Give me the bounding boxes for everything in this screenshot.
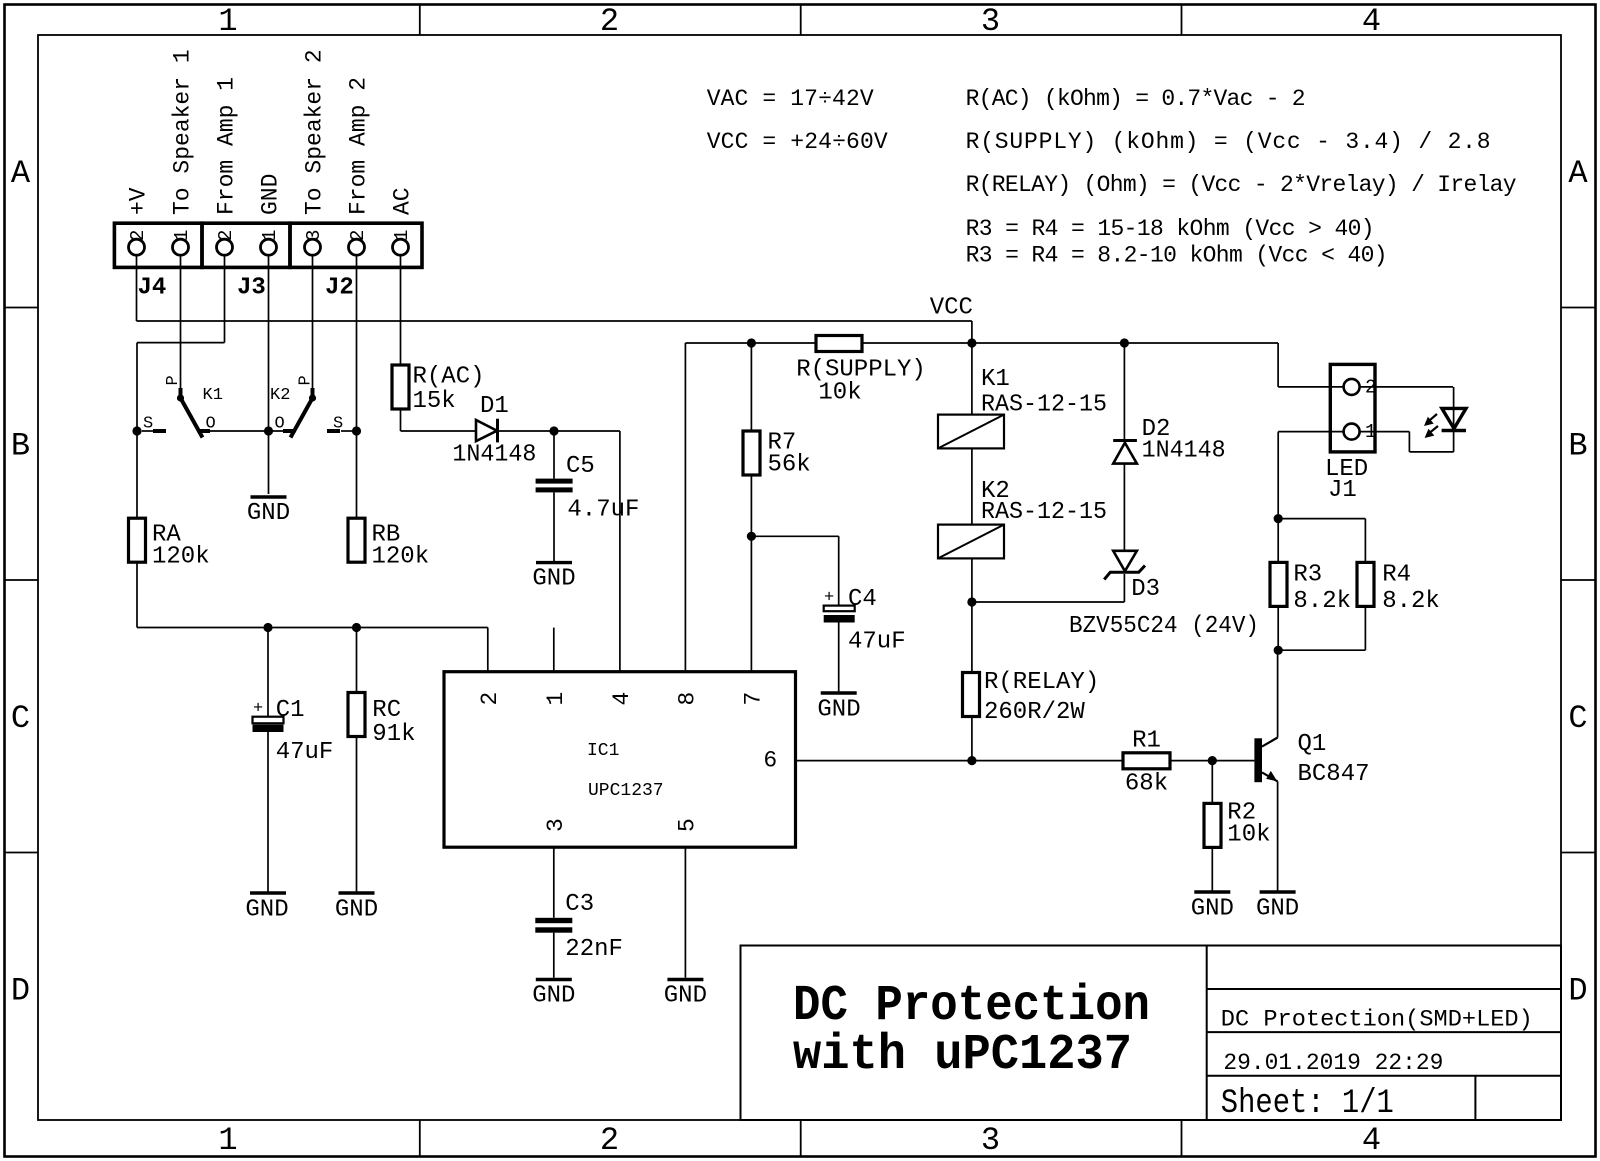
svg-text:47uF: 47uF xyxy=(276,739,334,766)
junction xyxy=(1120,338,1129,347)
ground (RC) xyxy=(335,893,378,924)
svg-text:GND: GND xyxy=(258,174,284,215)
wire xyxy=(1364,519,1366,563)
svg-text:6: 6 xyxy=(763,748,777,774)
svg-text:C1: C1 xyxy=(276,697,305,724)
svg-text:BC847: BC847 xyxy=(1298,761,1370,788)
svg-text:1: 1 xyxy=(391,230,413,241)
svg-text:P: P xyxy=(297,375,316,385)
svg-text:RAS-12-15: RAS-12-15 xyxy=(981,499,1107,526)
svg-text:+: + xyxy=(824,589,834,608)
svg-text:J2: J2 xyxy=(325,274,354,301)
junction xyxy=(264,426,273,435)
svg-text:To Speaker 2: To Speaker 2 xyxy=(302,49,328,215)
svg-text:B: B xyxy=(11,428,30,465)
wire xyxy=(267,628,269,717)
svg-text:R3 = R4 = 15-18 kOhm (Vcc > 40: R3 = R4 = 15-18 kOhm (Vcc > 40) xyxy=(966,216,1375,242)
svg-text:R(SUPPLY) (kOhm) = (Vcc - 3.4): R(SUPPLY) (kOhm) = (Vcc - 3.4) / 2.8 xyxy=(966,129,1491,155)
wire xyxy=(1409,451,1453,453)
frame tick right B/C xyxy=(1561,579,1596,581)
svg-text:GND: GND xyxy=(817,697,860,724)
svg-text:1: 1 xyxy=(171,230,193,241)
svg-text:15k: 15k xyxy=(413,388,456,415)
frame tick bottom 2/3 xyxy=(800,1120,802,1157)
capacitor C5 xyxy=(536,453,640,524)
svg-text:C4: C4 xyxy=(848,586,877,613)
wire xyxy=(971,321,973,343)
wire xyxy=(400,409,402,431)
wire xyxy=(137,627,488,629)
svg-text:R3: R3 xyxy=(1293,562,1322,589)
svg-text:2: 2 xyxy=(600,1122,619,1159)
svg-text:5: 5 xyxy=(674,818,700,832)
wire xyxy=(862,342,1278,344)
connector J2 xyxy=(290,223,422,301)
resistor RA xyxy=(129,518,210,570)
svg-text:47uF: 47uF xyxy=(848,629,906,656)
resistor RC xyxy=(348,693,416,749)
wire xyxy=(1277,432,1279,563)
svg-text:IC1: IC1 xyxy=(587,741,619,761)
svg-text:A: A xyxy=(1568,155,1588,192)
resistor R3 xyxy=(1270,562,1351,616)
capacitor C1 polarized xyxy=(253,697,334,766)
svg-text:K1: K1 xyxy=(981,366,1010,393)
svg-text:GND: GND xyxy=(245,897,288,924)
svg-text:260R/2W: 260R/2W xyxy=(984,699,1085,726)
junction xyxy=(549,426,558,435)
LED (external) xyxy=(1424,408,1466,438)
svg-text:56k: 56k xyxy=(768,452,811,479)
svg-text:R3 = R4 = 8.2-10 kOhm (Vcc < 4: R3 = R4 = 8.2-10 kOhm (Vcc < 40) xyxy=(966,243,1388,269)
capacitor C3 xyxy=(535,891,623,963)
wire xyxy=(498,430,620,432)
resistor R2 xyxy=(1204,800,1271,849)
wire xyxy=(224,255,226,342)
svg-text:Sheet: 1/1: Sheet: 1/1 xyxy=(1221,1085,1394,1123)
ground (C4) xyxy=(817,693,860,724)
wire xyxy=(356,736,358,891)
svg-text:10k: 10k xyxy=(1227,822,1270,849)
svg-text:C5: C5 xyxy=(566,453,595,480)
svg-text:R(RELAY): R(RELAY) xyxy=(984,669,1099,696)
wire xyxy=(137,320,972,322)
wire xyxy=(1211,761,1213,804)
svg-text:4.7uF: 4.7uF xyxy=(567,497,639,524)
resistor R1 xyxy=(1123,728,1170,798)
svg-text:GND: GND xyxy=(247,500,290,527)
svg-text:1N4148: 1N4148 xyxy=(452,442,536,469)
wire xyxy=(751,535,838,537)
svg-text:1: 1 xyxy=(259,230,281,241)
wire xyxy=(619,431,621,672)
svg-text:C3: C3 xyxy=(565,891,594,918)
ground (C3) xyxy=(532,980,575,1010)
svg-text:DC Protection(SMD+LED): DC Protection(SMD+LED) xyxy=(1221,1006,1533,1032)
svg-text:K1: K1 xyxy=(203,386,223,405)
svg-text:8: 8 xyxy=(674,692,700,706)
junction xyxy=(747,338,756,347)
diode D2 xyxy=(1113,416,1225,465)
junction xyxy=(132,426,141,435)
svg-text:To Speaker 1: To Speaker 1 xyxy=(170,49,196,215)
svg-text:VCC = +24÷60V: VCC = +24÷60V xyxy=(707,129,888,155)
wire xyxy=(1364,607,1366,651)
junction xyxy=(1208,756,1217,765)
svg-text:B: B xyxy=(1568,428,1587,465)
svg-text:120k: 120k xyxy=(372,544,430,571)
resistor R4 xyxy=(1357,562,1440,616)
svg-text:4: 4 xyxy=(1362,1122,1381,1159)
ground (C1) xyxy=(245,893,288,924)
wire xyxy=(1278,431,1343,433)
wire xyxy=(1360,386,1453,388)
svg-text:VAC = 17÷42V: VAC = 17÷42V xyxy=(707,86,874,112)
svg-text:1N4148: 1N4148 xyxy=(1142,438,1226,465)
svg-text:R(AC): R(AC) xyxy=(413,364,485,391)
wire xyxy=(312,255,314,388)
wire xyxy=(1277,781,1279,890)
svg-text:8.2k: 8.2k xyxy=(1382,588,1440,615)
junction xyxy=(1274,514,1283,523)
svg-text:From Amp 2: From Amp 2 xyxy=(346,77,372,215)
svg-text:4: 4 xyxy=(1362,3,1381,40)
wire xyxy=(136,562,138,627)
svg-text:From Amp 1: From Amp 1 xyxy=(214,77,240,215)
svg-text:with uPC1237: with uPC1237 xyxy=(793,1027,1132,1084)
svg-text:1: 1 xyxy=(218,3,237,40)
svg-text:8.2k: 8.2k xyxy=(1293,588,1351,615)
svg-text:3: 3 xyxy=(981,3,1000,40)
svg-text:2: 2 xyxy=(127,230,149,241)
wire xyxy=(971,602,973,673)
junction xyxy=(263,623,272,632)
connector J3 xyxy=(202,223,290,301)
ground (R2) xyxy=(1191,892,1234,923)
svg-text:1: 1 xyxy=(218,1122,237,1159)
IC U1 uPC1237 xyxy=(444,628,796,848)
svg-text:AC: AC xyxy=(390,187,416,215)
wire xyxy=(750,475,752,672)
wire xyxy=(1277,343,1279,387)
svg-text:GND: GND xyxy=(664,983,707,1010)
wire xyxy=(972,601,1125,603)
wire xyxy=(971,716,973,761)
frame tick top 2/3 xyxy=(800,5,802,36)
svg-text:7: 7 xyxy=(740,692,766,706)
svg-text:2: 2 xyxy=(347,230,369,241)
resistor R(AC) xyxy=(392,364,485,416)
svg-text:P: P xyxy=(164,375,183,385)
ground (IC pin5) xyxy=(664,980,707,1010)
wire xyxy=(356,255,358,518)
wire xyxy=(137,342,225,344)
wire xyxy=(1277,650,1279,737)
svg-text:GND: GND xyxy=(335,897,378,924)
wire xyxy=(553,933,555,978)
wire xyxy=(1278,649,1365,651)
wire xyxy=(1277,607,1279,651)
wire xyxy=(684,343,686,672)
wire xyxy=(356,628,358,693)
zener diode D3 xyxy=(1069,551,1259,640)
svg-text:GND: GND xyxy=(532,983,575,1010)
junction xyxy=(967,597,976,606)
svg-text:J1: J1 xyxy=(1328,477,1357,504)
svg-text:29.01.2019 22:29: 29.01.2019 22:29 xyxy=(1223,1050,1443,1076)
wire xyxy=(1123,464,1125,551)
svg-text:C: C xyxy=(1568,700,1587,737)
resistor RB xyxy=(348,518,429,570)
relay coil K1 xyxy=(938,366,1107,448)
frame tick top 3/4 xyxy=(1181,5,1183,36)
svg-text:3: 3 xyxy=(543,818,569,832)
svg-text:O: O xyxy=(275,415,285,434)
wire xyxy=(1278,518,1365,520)
wire xyxy=(1453,431,1455,452)
svg-text:1: 1 xyxy=(1365,421,1376,443)
svg-text:RAS-12-15: RAS-12-15 xyxy=(981,392,1107,419)
wire xyxy=(553,847,555,918)
frame tick left A/B xyxy=(5,307,39,309)
frame tick left B/C xyxy=(5,579,39,581)
junction xyxy=(967,756,976,765)
frame tick bottom 1/2 xyxy=(419,1120,421,1157)
resistor R(SUPPLY) xyxy=(796,336,926,407)
wire xyxy=(553,431,555,479)
svg-text:RC: RC xyxy=(372,697,401,724)
wire xyxy=(838,536,840,605)
junction xyxy=(352,623,361,632)
wire xyxy=(267,732,269,892)
wire xyxy=(1123,574,1125,602)
svg-text:BZV55C24 (24V): BZV55C24 (24V) xyxy=(1069,613,1259,640)
svg-text:R(RELAY) (Ohm) = (Vcc - 2*Vrel: R(RELAY) (Ohm) = (Vcc - 2*Vrelay) / Irel… xyxy=(966,172,1517,198)
svg-text:K2: K2 xyxy=(270,386,290,405)
wire xyxy=(1211,847,1213,890)
resistor R7 xyxy=(743,430,811,479)
svg-text:GND: GND xyxy=(1191,896,1234,923)
frame tick left C/D xyxy=(5,852,39,854)
svg-text:A: A xyxy=(11,155,31,192)
svg-text:GND: GND xyxy=(532,566,575,593)
wire xyxy=(210,430,283,432)
svg-text:2: 2 xyxy=(1365,377,1376,399)
svg-text:S: S xyxy=(333,415,343,434)
svg-text:+V: +V xyxy=(126,187,152,215)
wire xyxy=(796,760,1124,762)
frame tick bottom 3/4 xyxy=(1181,1120,1183,1157)
wire xyxy=(971,558,973,602)
wire xyxy=(971,343,973,415)
svg-text:10k: 10k xyxy=(818,380,861,407)
wire xyxy=(750,343,752,431)
wire xyxy=(136,343,138,519)
svg-text:2: 2 xyxy=(600,3,619,40)
svg-text:2: 2 xyxy=(477,692,503,706)
svg-text:R1: R1 xyxy=(1132,728,1161,755)
wire xyxy=(136,255,138,321)
svg-text:1: 1 xyxy=(543,692,569,706)
svg-text:C: C xyxy=(11,700,30,737)
wire xyxy=(1278,386,1344,388)
ground (C5) xyxy=(532,563,575,593)
wire xyxy=(341,430,357,432)
wire xyxy=(487,628,489,672)
wire xyxy=(400,255,402,365)
relay coil K2 xyxy=(938,478,1107,558)
relay contact K1 xyxy=(143,375,223,437)
svg-text:R(AC) (kOhm) = 0.7*Vac - 2: R(AC) (kOhm) = 0.7*Vac - 2 xyxy=(966,86,1306,112)
junction xyxy=(352,426,361,435)
wire xyxy=(553,492,555,561)
connector J4 xyxy=(114,223,202,301)
svg-text:4: 4 xyxy=(609,692,635,706)
svg-text:91k: 91k xyxy=(372,721,415,748)
wire xyxy=(1170,760,1254,762)
svg-text:D3: D3 xyxy=(1131,576,1160,603)
frame tick top 1/2 xyxy=(419,5,421,36)
wire xyxy=(838,623,840,692)
wire xyxy=(685,342,816,344)
transistor Q1 xyxy=(1254,731,1369,788)
wire xyxy=(1408,432,1410,452)
svg-text:3: 3 xyxy=(981,1122,1000,1159)
ground (Q1 emitter) xyxy=(1256,892,1299,923)
wire xyxy=(401,430,477,432)
relay contact K2 xyxy=(270,375,343,437)
junction xyxy=(1274,646,1283,655)
wire xyxy=(971,448,973,524)
wire xyxy=(142,430,153,432)
capacitor C4 polarized xyxy=(824,586,906,656)
svg-text:R4: R4 xyxy=(1382,562,1411,589)
svg-text:68k: 68k xyxy=(1125,771,1168,798)
svg-text:J3: J3 xyxy=(237,274,266,301)
svg-text:22nF: 22nF xyxy=(565,936,623,963)
junction xyxy=(747,532,756,541)
svg-text:+: + xyxy=(253,700,263,719)
svg-text:UPC1237: UPC1237 xyxy=(588,781,664,801)
wire xyxy=(268,255,270,494)
svg-text:D: D xyxy=(11,973,30,1010)
diode D1 xyxy=(452,393,536,469)
svg-text:2: 2 xyxy=(215,230,237,241)
ground (switch common) xyxy=(247,497,290,527)
svg-text:J4: J4 xyxy=(138,274,167,301)
wire xyxy=(1360,431,1410,433)
svg-text:3: 3 xyxy=(303,230,325,241)
wire xyxy=(1123,343,1125,441)
svg-text:S: S xyxy=(143,415,153,434)
frame tick right C/D xyxy=(1561,852,1596,854)
wire xyxy=(180,255,182,388)
resistor R(RELAY) xyxy=(963,669,1100,726)
svg-text:Q1: Q1 xyxy=(1298,731,1327,758)
title block xyxy=(741,946,1562,1124)
junction xyxy=(967,338,976,347)
wire xyxy=(1453,387,1455,431)
svg-text:120k: 120k xyxy=(152,544,210,571)
wire xyxy=(684,847,686,978)
svg-text:D1: D1 xyxy=(480,393,509,420)
svg-text:GND: GND xyxy=(1256,896,1299,923)
frame tick right A/B xyxy=(1561,307,1596,309)
svg-text:VCC: VCC xyxy=(930,295,973,322)
svg-text:D: D xyxy=(1568,973,1587,1010)
svg-text:O: O xyxy=(206,415,216,434)
connector J1 xyxy=(1325,364,1376,504)
